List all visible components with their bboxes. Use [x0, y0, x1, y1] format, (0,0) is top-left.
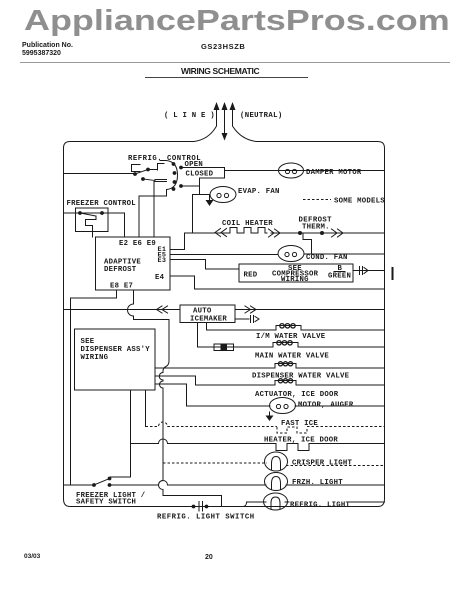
pushbutton bars refrig light switch	[199, 502, 203, 512]
svg-text:GREEN: GREEN	[328, 273, 351, 281]
wire motor auger row	[187, 405, 385, 407]
svg-text:HEATER, ICE DOOR: HEATER, ICE DOOR	[264, 437, 338, 445]
cond fan motor M3	[278, 246, 304, 262]
solenoid coil dispenser water valve	[275, 364, 296, 369]
svg-text:EVAP. FAN: EVAP. FAN	[238, 188, 280, 196]
wire E8 to left bus	[71, 290, 117, 298]
adaptive defrost board U1	[96, 237, 171, 290]
wire cond fan to frame	[304, 253, 385, 255]
wire arc bottom to E6	[139, 190, 167, 197]
junction dot defrost therm left	[298, 231, 302, 235]
svg-text:MOTOR, AUGER: MOTOR, AUGER	[298, 402, 354, 410]
wire NEUTRAL riser curve	[233, 104, 257, 142]
svg-text:WIRING: WIRING	[281, 276, 309, 284]
heater element ice door	[276, 444, 309, 451]
wire icemaker to main valve row	[197, 323, 199, 348]
wire freezer control rail	[64, 213, 125, 237]
arrowhead center down to rail	[222, 133, 228, 141]
svg-text:E3: E3	[158, 257, 167, 265]
switch blade freezer control	[80, 213, 96, 216]
page margin tick	[392, 267, 394, 280]
arrowhead NEUTRAL up	[230, 102, 236, 110]
rotary switch arc	[160, 161, 178, 190]
arrow chevrons right of coil heater	[269, 229, 281, 237]
wire LINE riser curve	[194, 104, 217, 142]
wire icemaker connector stub	[235, 318, 249, 320]
wire GREEN output to frame	[353, 270, 385, 272]
svg-text:FAST ICE: FAST ICE	[281, 420, 318, 428]
svg-text:FRZH. LIGHT: FRZH. LIGHT	[292, 479, 343, 487]
auger motor M4	[270, 398, 296, 414]
connector bracket at refrig control	[132, 165, 141, 172]
arrow chevrons right of defrost therm	[332, 229, 344, 237]
wire center ground riser	[224, 110, 226, 133]
junction dot arc contact 3	[173, 180, 177, 184]
svg-text:THERM.: THERM.	[302, 224, 330, 232]
heater element coil heater	[230, 228, 267, 234]
svg-text:(NEUTRAL): (NEUTRAL)	[240, 112, 283, 120]
svg-text:RED: RED	[244, 272, 258, 280]
damper motor M1	[279, 163, 304, 178]
solenoid coil actuator ice door	[275, 381, 296, 386]
junction dot defrost therm right	[320, 231, 324, 235]
solenoid coil main water valve	[273, 343, 298, 348]
lamp freezer light	[265, 473, 288, 491]
svg-text:I/M WATER VALVE: I/M WATER VALVE	[256, 333, 326, 341]
junction dot contact C	[141, 177, 145, 181]
connector disconnect at compressor output	[360, 267, 369, 275]
arrow chevrons left of icemaker	[157, 306, 168, 313]
ground arrow auger motor	[266, 416, 274, 422]
title underline	[145, 77, 308, 78]
arrow chevrons right of icemaker	[245, 306, 256, 313]
solenoid loops actuator	[278, 379, 292, 383]
wire E9 riser	[153, 182, 155, 238]
wire blade common to contact A	[135, 170, 148, 175]
svg-text:COND. FAN: COND. FAN	[306, 254, 348, 262]
junction dot CLOSED contact	[179, 184, 183, 188]
wire OPEN contact to damper branch	[181, 168, 225, 179]
junction dot arc contact 2	[173, 171, 177, 175]
svg-text:WIRING: WIRING	[81, 354, 109, 362]
wire auger feed from dispenser box	[155, 384, 187, 406]
dashed note line some models	[303, 199, 331, 201]
junction dot refrig light switch right	[205, 505, 209, 509]
solenoid loops main valve	[277, 341, 292, 345]
wire refrig light switch riser	[163, 495, 222, 497]
svg-text:SEE: SEE	[81, 338, 95, 346]
wire E7 drop with hop over icemaker line	[128, 290, 222, 507]
junction dot safety switch left	[92, 483, 96, 487]
wire blade lower	[143, 179, 155, 181]
svg-text:DEFROST: DEFROST	[104, 266, 137, 274]
freezer control box	[76, 208, 109, 232]
svg-text:COIL HEATER: COIL HEATER	[222, 220, 273, 228]
junction dot contact A	[146, 168, 150, 172]
lamp crisper light	[265, 452, 288, 471]
model number GS23HSZB	[201, 42, 245, 51]
arrowhead LINE up	[214, 102, 220, 110]
ground arrow evap fan	[206, 200, 214, 206]
svg-text:ICEMAKER: ICEMAKER	[190, 316, 227, 324]
dashed fast ice row	[146, 422, 385, 427]
header logo	[24, 5, 450, 38]
svg-text:ACTUATOR, ICE DOOR: ACTUATOR, ICE DOOR	[255, 391, 339, 399]
publication number block	[22, 42, 73, 58]
wire freezer light rail	[64, 481, 385, 486]
svg-text:SAFETY SWITCH: SAFETY SWITCH	[76, 499, 136, 507]
arrow chevrons left of coil heater	[215, 229, 227, 237]
wire refrig light to frame	[285, 501, 385, 503]
auto icemaker box	[180, 305, 235, 323]
wire CLOSED return path	[200, 178, 225, 186]
title WIRING SCHEMATIC	[181, 66, 259, 76]
svg-text:REFRIG. LIGHT: REFRIG. LIGHT	[290, 502, 351, 510]
wire I/M water valve row	[207, 329, 385, 331]
wire E5 to cond fan	[170, 254, 278, 256]
junction dot freezer control left	[78, 211, 82, 215]
wire E6 riser	[138, 196, 140, 237]
wire dispenser box bottom to heater row	[111, 390, 131, 479]
fuse internal element	[214, 345, 234, 350]
wire actuator row from dispenser box	[155, 376, 196, 385]
svg-text:DISPENSER ASS'Y: DISPENSER ASS'Y	[81, 346, 151, 354]
wire E4 row to frame	[170, 276, 385, 289]
wire B terminal underline	[334, 271, 345, 273]
wire main water valve row	[198, 346, 385, 348]
footer page 20	[205, 554, 213, 561]
ground stub at evap fan	[209, 195, 211, 201]
svg-text:SOME MODELS: SOME MODELS	[334, 198, 385, 206]
wire freezer control internal step	[86, 216, 97, 237]
defrost thermostat element	[303, 233, 312, 254]
junction dot freezer control right	[100, 211, 104, 215]
solenoid loops I/M valve	[280, 324, 295, 328]
dashed wires group	[146, 200, 385, 466]
evap fan motor M2	[210, 187, 236, 203]
svg-text:( L I N E ): ( L I N E )	[164, 112, 215, 120]
junction dot refrig rail B	[133, 172, 137, 176]
fuse F1	[214, 344, 234, 351]
svg-text:FREEZER CONTROL: FREEZER CONTROL	[67, 200, 136, 208]
junction dot OPEN contact	[179, 166, 183, 170]
wire actuator ice door row	[196, 384, 385, 386]
junction dot safety switch mid	[108, 483, 112, 487]
svg-text:CLOSED: CLOSED	[186, 171, 214, 179]
wire double throw lines	[155, 180, 167, 182]
solenoid coil I/M water valve	[276, 326, 301, 331]
svg-text:MAIN WATER VALVE: MAIN WATER VALVE	[255, 353, 329, 361]
ground stub at auger motor	[269, 412, 271, 416]
compressor wiring box	[239, 264, 353, 282]
wire contact A stub	[148, 164, 164, 171]
wire damper motor line	[225, 170, 385, 172]
dashed crisper light row	[163, 463, 385, 466]
svg-text:E8 E7: E8 E7	[110, 283, 133, 291]
svg-text:CRISPER LIGHT: CRISPER LIGHT	[292, 460, 353, 468]
junction dot refrig light switch left	[192, 505, 196, 509]
wire refrig light jog from bottom rail	[243, 502, 266, 507]
svg-text:DISPENSER WATER VALVE: DISPENSER WATER VALVE	[252, 373, 350, 381]
wire icemaker rail from frame	[64, 309, 181, 311]
wire left bus vertical	[70, 298, 72, 485]
wire CLOSED contact	[181, 186, 200, 195]
wire icemaker to I/M valve row	[206, 323, 208, 331]
svg-text:E4: E4	[155, 274, 165, 282]
junction dot arc contact 4	[172, 187, 176, 191]
arrowhead center up	[222, 102, 228, 110]
wire refrig control rail	[64, 173, 137, 175]
lamp refrig light	[264, 493, 288, 510]
footer date 03/03	[24, 553, 40, 560]
solenoid loops dispenser valve	[278, 362, 292, 366]
svg-text:OPEN: OPEN	[185, 161, 204, 169]
dashed heater element fast ice	[277, 427, 307, 433]
wire coil heater line	[185, 232, 385, 234]
wire icemaker output to frame	[235, 309, 385, 311]
dispenser assembly box	[75, 329, 156, 390]
outer frame	[64, 142, 385, 507]
wire dispenser valve row	[155, 367, 385, 369]
svg-text:E2 E6 E9: E2 E6 E9	[119, 240, 156, 248]
svg-text:AUTO: AUTO	[193, 308, 212, 316]
wire E3 to compressor RED	[170, 260, 239, 270]
svg-text:DAMPER MOTOR: DAMPER MOTOR	[306, 169, 362, 177]
wire dispenser box bottom to fast ice row	[145, 390, 147, 427]
header rule	[20, 62, 450, 63]
wire heater ice door row	[131, 439, 385, 444]
svg-text:REFRIG. LIGHT SWITCH: REFRIG. LIGHT SWITCH	[157, 514, 255, 522]
wire evap fan feed and drop to heater line	[193, 195, 211, 234]
junction dot safety switch upper	[108, 477, 112, 481]
connector disconnect at icemaker	[251, 316, 260, 323]
switch blade freezer light safety	[94, 479, 110, 486]
junction dot arc contact 1	[172, 162, 176, 166]
wire E1 to coil heater line	[170, 233, 185, 250]
